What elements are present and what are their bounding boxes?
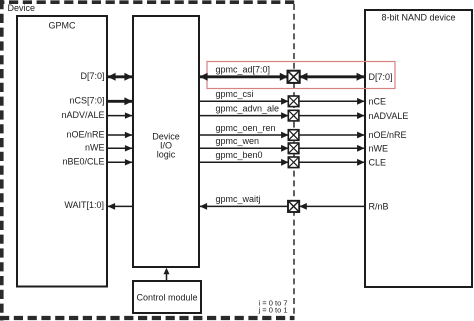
label R/nB [369, 202, 389, 212]
label Control module [136, 292, 197, 302]
label GPMC [49, 21, 77, 31]
label gpmc_ad[7:0] [216, 65, 271, 75]
svg-text:8-bit NAND device: 8-bit NAND device [381, 13, 455, 23]
svg-text:nOE/nRE: nOE/nRE [66, 129, 104, 139]
label nADVALE NAND [369, 111, 409, 121]
device boundary right (I/O pad ring) [293, 4, 295, 316]
wire gpmc_oen_ren IO-pad [200, 132, 289, 139]
wire D[7:0] GPMC-IO [108, 73, 133, 81]
svg-text:nADVALE: nADVALE [369, 111, 409, 121]
svg-text:logic: logic [157, 150, 176, 160]
pad gpmc_wen [288, 143, 299, 154]
highlight box gpmc_ad[7:0] net [207, 62, 395, 89]
pad gpmc_csi [288, 96, 299, 107]
svg-text:D[7:0]: D[7:0] [80, 71, 104, 81]
wire nWE pad-NAND [299, 145, 366, 152]
wire nBE0/CLE GPMC-IO [108, 159, 132, 165]
label nWE [85, 143, 105, 153]
label Device [8, 3, 36, 13]
label nADV/ALE [61, 110, 104, 120]
svg-text:D[7:0]: D[7:0] [369, 72, 393, 82]
svg-text:gpmc_ben0: gpmc_ben0 [216, 150, 263, 160]
label nOE/nRE [66, 129, 104, 139]
wire gpmc_waitj pad-IO [200, 203, 289, 210]
label D[7:0] NAND [369, 72, 393, 82]
wire nOE/nRE GPMC-IO [108, 132, 132, 138]
block GPMC [17, 16, 107, 287]
label gpmc_ben0 [216, 150, 263, 160]
label gpmc_oen_ren [216, 123, 276, 133]
svg-text:gpmc_advn_ale: gpmc_advn_ale [216, 103, 280, 113]
wire R/nB NAND-pad [299, 203, 366, 210]
label gpmc_advn_ale [216, 103, 280, 113]
label nCS[7:0] [69, 96, 104, 106]
label gpmc_waitj [216, 194, 261, 204]
label WAIT[1:0] [64, 200, 104, 210]
label nBE0/CLE [62, 157, 104, 167]
wire nCS[7:0] GPMC-IO [108, 97, 132, 105]
wire gpmc_ben0 IO-pad [200, 159, 289, 166]
label nOE/nRE NAND [369, 130, 407, 140]
wire gpmc_wen IO-pad [200, 145, 289, 152]
svg-text:nWE: nWE [85, 143, 105, 153]
svg-text:CLE: CLE [369, 158, 387, 168]
device boundary top [0, 0, 295, 4]
label gpmc_csi [216, 89, 254, 99]
svg-text:gpmc_wen: gpmc_wen [216, 136, 260, 146]
device boundary bottom [0, 316, 295, 320]
label 8-bit NAND device [381, 13, 455, 23]
wire gpmc_ad[7:0] IO-pad [200, 73, 288, 81]
pad gpmc_oen_ren [288, 130, 299, 141]
wire nCE pad-NAND [299, 98, 366, 105]
wire nADV/ALE GPMC-IO [108, 112, 132, 118]
svg-text:nWE: nWE [369, 144, 389, 154]
wire nWE GPMC-IO [108, 145, 132, 151]
block Device I/O logic [133, 16, 199, 267]
wire D[7:0] pad-NAND [299, 73, 365, 81]
label D[7:0] GPMC [80, 71, 104, 81]
label nWE NAND [369, 144, 389, 154]
svg-text:nOE/nRE: nOE/nRE [369, 130, 407, 140]
svg-text:nCE: nCE [369, 97, 387, 107]
svg-text:gpmc_csi: gpmc_csi [216, 89, 254, 99]
note j = 0 to 1 [258, 306, 288, 315]
wire gpmc_csi IO-pad [200, 98, 289, 105]
svg-text:nCS[7:0]: nCS[7:0] [69, 96, 104, 106]
wire CLE pad-NAND [299, 159, 366, 166]
pad gpmc_advn_ale [288, 110, 299, 121]
block Control module [133, 281, 201, 313]
svg-text:WAIT[1:0]: WAIT[1:0] [64, 200, 104, 210]
svg-text:Control module: Control module [136, 292, 197, 302]
pad gpmc_waitj [288, 201, 299, 212]
svg-text:gpmc_ad[7:0]: gpmc_ad[7:0] [216, 65, 271, 75]
wire nOE/nRE pad-NAND [299, 132, 366, 139]
svg-text:R/nB: R/nB [369, 202, 389, 212]
svg-text:GPMC: GPMC [49, 21, 77, 31]
svg-text:gpmc_oen_ren: gpmc_oen_ren [216, 123, 276, 133]
wire Control module to I/O logic [164, 268, 170, 281]
label Device I/O logic [152, 131, 180, 159]
svg-text:nBE0/CLE: nBE0/CLE [62, 157, 104, 167]
svg-text:j = 0 to 1: j = 0 to 1 [258, 306, 288, 315]
svg-text:Device: Device [8, 3, 36, 13]
note i = 0 to 7 [259, 298, 288, 307]
wire nADVALE pad-NAND [299, 112, 366, 119]
label nCE NAND [369, 97, 387, 107]
wire WAIT[1:0] IO-GPMC [108, 203, 132, 210]
wire gpmc_advn_ale IO-pad [200, 112, 289, 119]
block 8-bit NAND device [365, 10, 472, 287]
pad gpmc_ben0 [288, 157, 299, 168]
svg-text:gpmc_waitj: gpmc_waitj [216, 194, 261, 204]
label gpmc_wen [216, 136, 260, 146]
pad gpmc_ad [288, 71, 300, 83]
svg-text:nADV/ALE: nADV/ALE [61, 110, 104, 120]
label CLE NAND [369, 158, 387, 168]
device boundary left [0, 0, 4, 321]
